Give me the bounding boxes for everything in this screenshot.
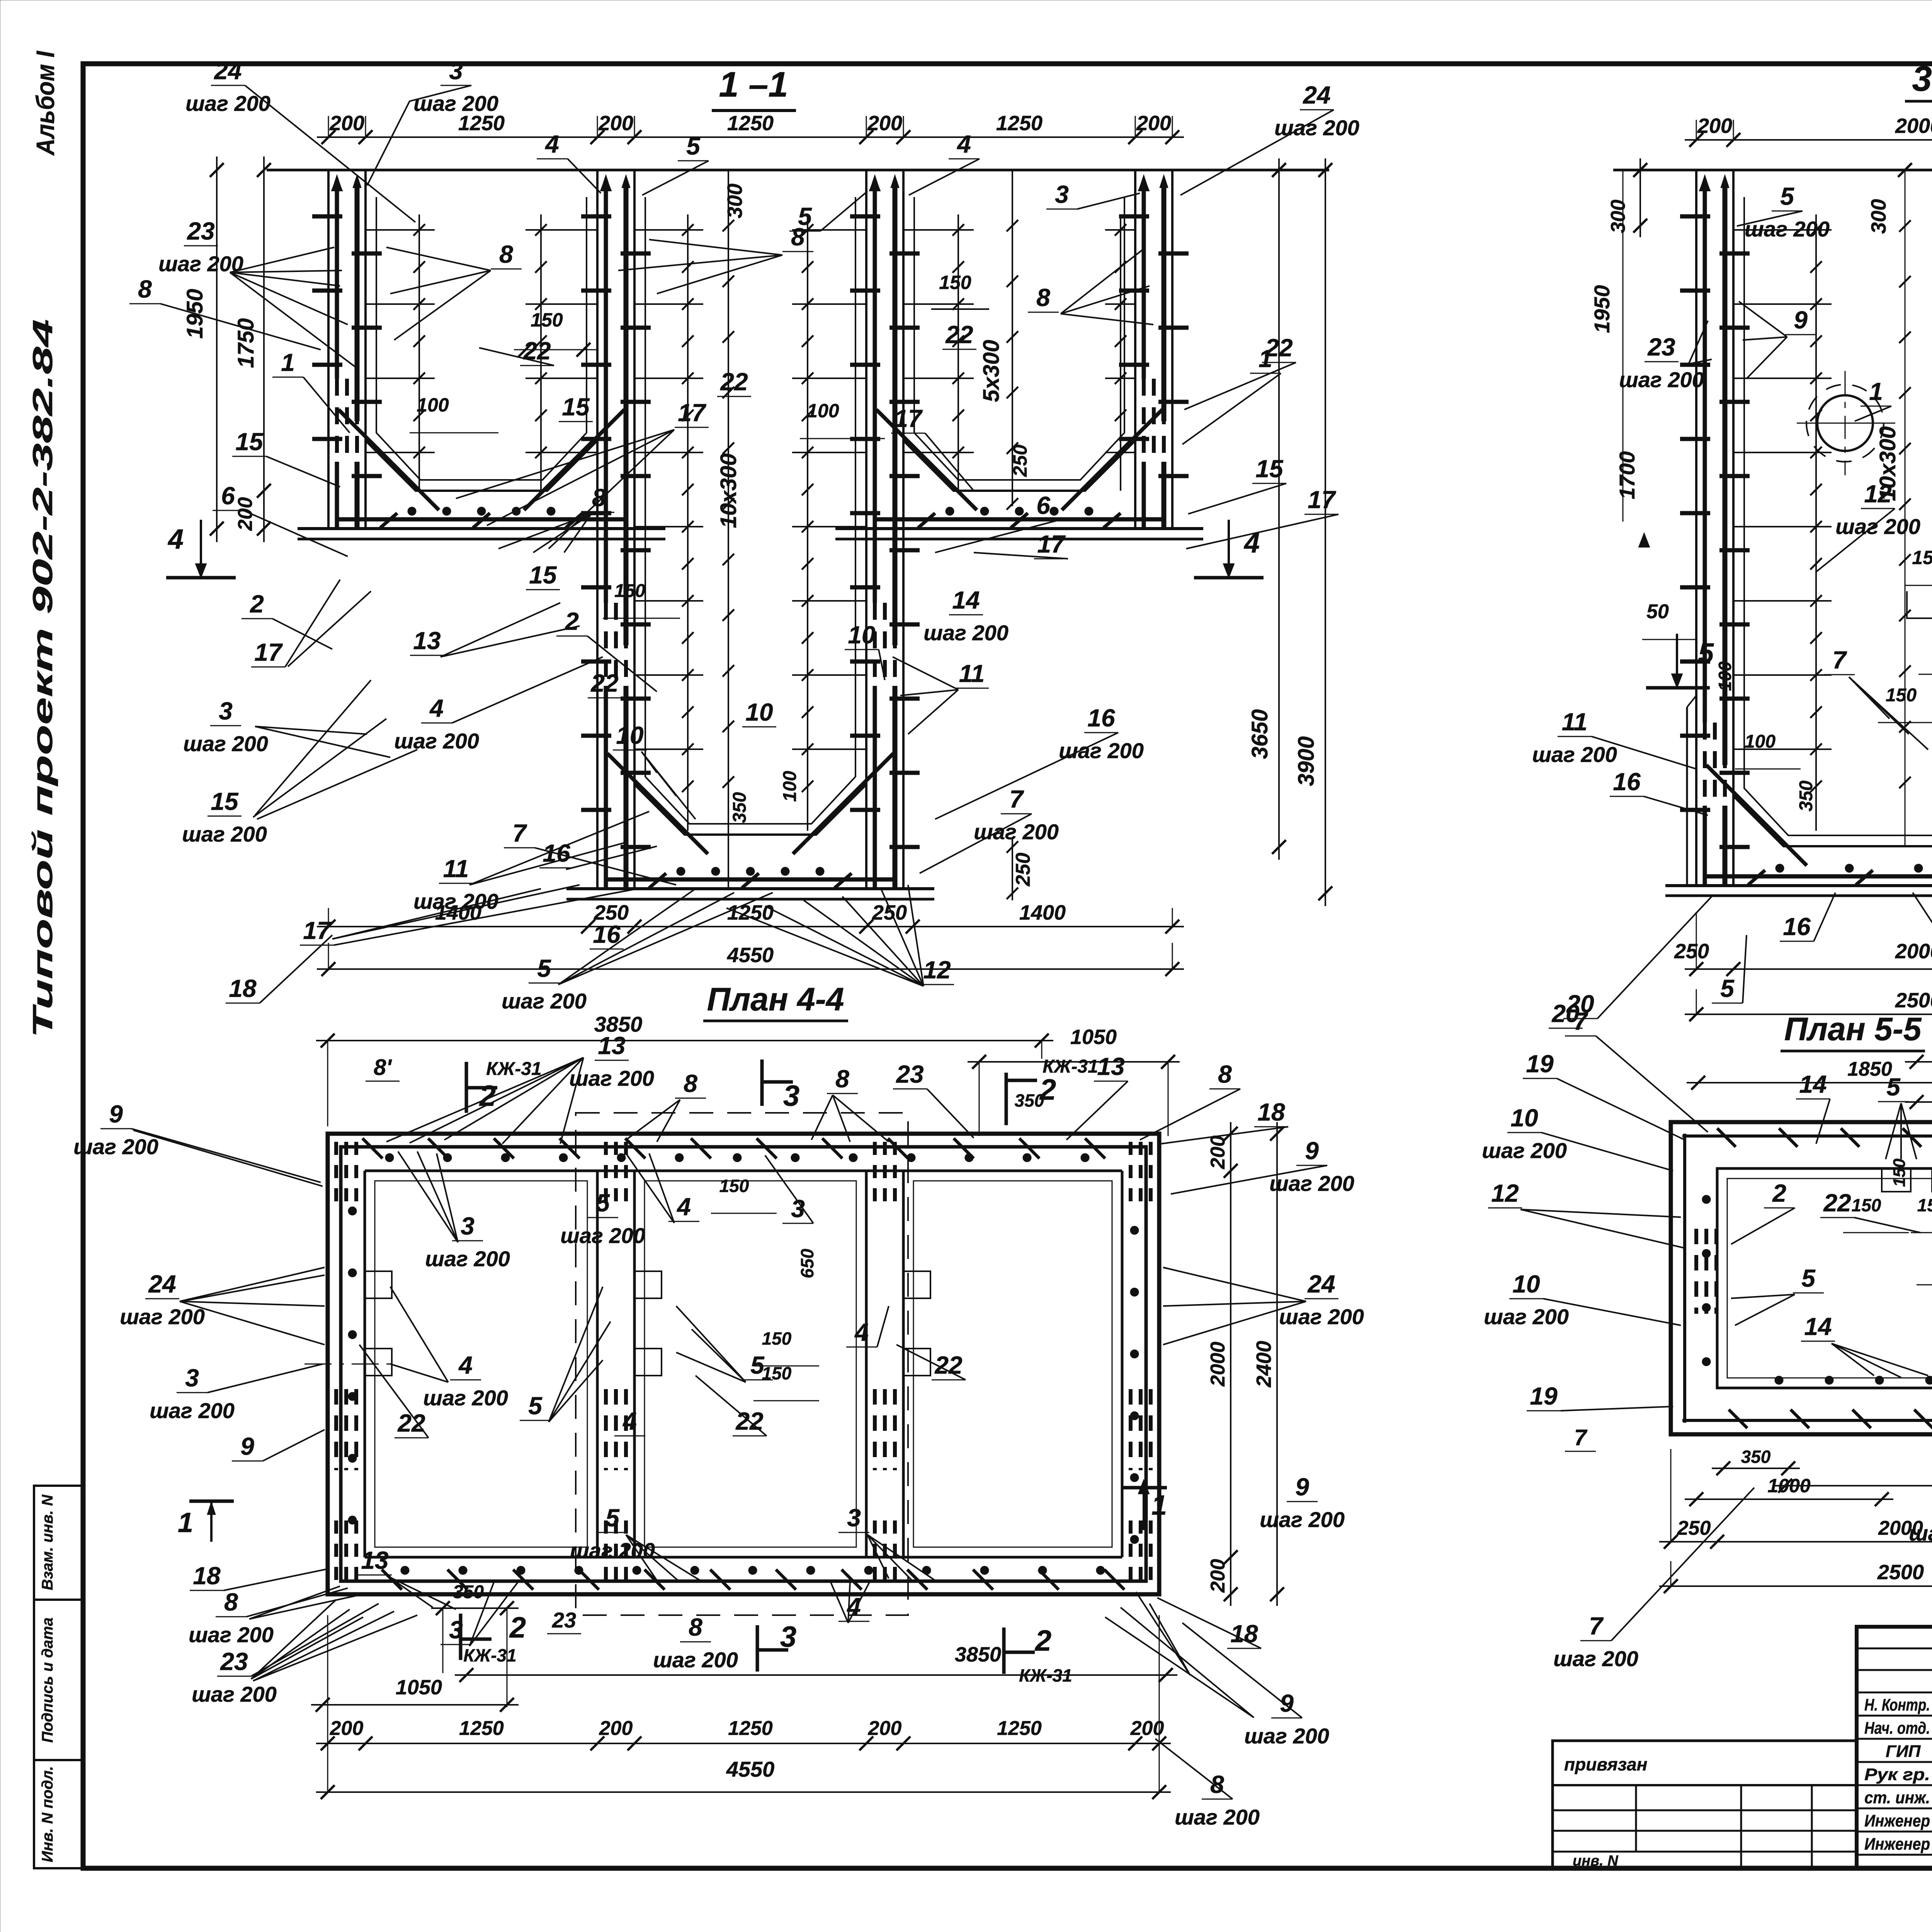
svg-text:200: 200: [1136, 112, 1171, 135]
plan 5-5 bottom dims: [1712, 1468, 1800, 1469]
svg-text:1250: 1250: [728, 1717, 773, 1740]
wall outline: [596, 170, 599, 889]
svg-text:24: 24: [1307, 1270, 1335, 1298]
plan 4-4 inner wall lines: [364, 1171, 366, 1557]
svg-text:2: 2: [509, 1611, 526, 1644]
svg-text:10: 10: [848, 621, 875, 649]
svg-text:15: 15: [529, 561, 557, 589]
svg-text:привязан: привязан: [1564, 1754, 1647, 1774]
section 3-3 inner vertical lines: [1905, 170, 1906, 846]
section 1-1 ladder dim 5x300: [1012, 170, 1013, 506]
plan 4-4 right vertical dims: [1230, 1122, 1231, 1606]
section 3-3 markers: [1676, 634, 1678, 688]
svg-text:2: 2: [565, 607, 579, 635]
svg-text:4: 4: [854, 1318, 869, 1346]
section 1-1 section marker 4 left: [200, 520, 202, 578]
svg-text:1950: 1950: [1590, 285, 1614, 333]
plan 5-5 top dims: [1687, 1082, 1932, 1083]
svg-text:Нач. отд.: Нач. отд.: [1864, 1719, 1930, 1738]
svg-text:КЖ-31: КЖ-31: [1019, 1665, 1072, 1685]
svg-text:350: 350: [1015, 1090, 1044, 1111]
svg-text:шаг 200: шаг 200: [1059, 738, 1144, 763]
svg-text:15: 15: [235, 428, 264, 456]
svg-text:ст. инж.: ст. инж.: [1864, 1788, 1930, 1807]
wall rebar ticks: [312, 214, 342, 219]
svg-text:22: 22: [934, 1351, 962, 1379]
slab bottom diagonal tick dashes: [649, 873, 666, 888]
plan 4-4 small dim 350 bottom: [431, 1607, 519, 1609]
svg-text:11: 11: [443, 855, 469, 883]
svg-text:5: 5: [1698, 638, 1714, 669]
svg-text:10: 10: [616, 721, 643, 749]
svg-text:10x300: 10x300: [716, 453, 741, 528]
svg-text:100: 100: [1745, 731, 1776, 752]
title block left row lines: [1857, 1648, 1932, 1650]
svg-text:3: 3: [783, 1080, 799, 1112]
tank floor with chamfers: [634, 784, 866, 835]
svg-text:16: 16: [1087, 704, 1115, 732]
svg-text:250: 250: [1012, 853, 1034, 887]
plan 4-4 side band rebar lines: [339, 1145, 343, 1583]
slab bottom rebar: [876, 517, 1163, 522]
svg-text:шаг 200: шаг 200: [923, 621, 1009, 645]
svg-text:4: 4: [676, 1193, 691, 1221]
plan 4-4 extra corner fans: [251, 1600, 336, 1679]
slab bottom lines: [1665, 884, 1932, 887]
svg-text:2: 2: [250, 590, 264, 618]
svg-text:5: 5: [537, 954, 551, 982]
svg-text:150: 150: [1917, 1195, 1932, 1215]
svg-text:Альбом I: Альбом I: [31, 50, 60, 156]
inner rebar cage outline: [914, 197, 1124, 480]
svg-text:12: 12: [1864, 480, 1891, 508]
svg-text:1250: 1250: [996, 112, 1043, 135]
svg-text:2: 2: [1034, 1624, 1051, 1657]
svg-text:150: 150: [939, 272, 971, 293]
svg-text:23: 23: [187, 217, 214, 245]
svg-text:шаг 200: шаг 200: [192, 1682, 277, 1706]
svg-text:5: 5: [1801, 1264, 1816, 1292]
svg-text:300: 300: [1867, 199, 1890, 234]
wall vertical rebar: [605, 177, 606, 177]
svg-text:22: 22: [720, 368, 748, 396]
svg-text:150: 150: [531, 309, 563, 331]
svg-text:шаг 200: шаг 200: [653, 1648, 738, 1672]
svg-text:350: 350: [453, 1582, 484, 1602]
plan 4-4 side dots: [348, 1207, 357, 1215]
svg-text:шаг 200: шаг 200: [1835, 514, 1920, 539]
svg-text:8: 8: [684, 1070, 697, 1097]
svg-text:7: 7: [1009, 785, 1024, 813]
svg-text:250: 250: [1674, 940, 1709, 963]
svg-text:200: 200: [867, 112, 902, 135]
svg-text:1050: 1050: [396, 1676, 442, 1699]
wall splice dashed bars: [1142, 379, 1146, 462]
svg-text:14: 14: [1804, 1313, 1832, 1340]
svg-text:1400: 1400: [1019, 901, 1066, 924]
svg-text:16: 16: [1613, 768, 1641, 796]
svg-text:100: 100: [807, 400, 839, 422]
section 1-1 interior ladder mid tank 2: [807, 214, 808, 831]
plan 4-4 bottom dims: [311, 1704, 519, 1706]
svg-text:17: 17: [303, 917, 332, 944]
svg-text:13: 13: [361, 1546, 388, 1574]
svg-text:100: 100: [1715, 661, 1735, 691]
svg-text:5: 5: [596, 1189, 610, 1217]
plan 5-5 diagonal ticks: [1717, 1128, 1736, 1147]
section 1-1 interior ladder left tank left face: [418, 214, 420, 491]
slab bottom lines: [835, 527, 1203, 530]
svg-text:200: 200: [598, 112, 633, 135]
svg-text:2500: 2500: [1877, 1561, 1924, 1584]
svg-text:18: 18: [1257, 1098, 1285, 1126]
wall vertical rebar: [337, 177, 337, 177]
plan 4-4 splice dashes on walls: [334, 1389, 338, 1470]
wall outline: [1134, 170, 1136, 529]
svg-text:шаг 200: шаг 200: [1244, 1724, 1329, 1748]
svg-text:1250: 1250: [997, 1717, 1042, 1740]
plan 5-5 outer rect: [1671, 1122, 1932, 1434]
slab bottom lines: [298, 527, 665, 530]
svg-text:шаг 200: шаг 200: [425, 1247, 510, 1271]
svg-text:10: 10: [1512, 1270, 1540, 1298]
svg-text:12: 12: [1491, 1179, 1519, 1207]
svg-text:15: 15: [211, 787, 239, 815]
svg-text:17: 17: [678, 399, 707, 427]
plan 5-5 inner wall rect: [1717, 1168, 1932, 1388]
svg-text:3: 3: [449, 57, 463, 85]
svg-text:8: 8: [1210, 1770, 1224, 1798]
slab bottom diagonal tick dashes: [918, 513, 935, 528]
svg-text:300: 300: [723, 184, 747, 218]
svg-text:250: 250: [1677, 1517, 1711, 1539]
slab bottom lines: [566, 887, 934, 890]
svg-text:250: 250: [1009, 444, 1031, 477]
svg-text:200: 200: [329, 112, 364, 135]
wall rebar ticks: [581, 214, 611, 219]
slab dots: [677, 867, 685, 876]
svg-text:24: 24: [1303, 81, 1330, 109]
wall vertical rebar: [1704, 177, 1705, 177]
svg-text:ГИП: ГИП: [1886, 1742, 1921, 1761]
svg-text:150: 150: [1912, 547, 1932, 568]
svg-text:15: 15: [562, 393, 590, 421]
svg-text:23: 23: [1647, 333, 1675, 361]
svg-text:22: 22: [1823, 1189, 1851, 1217]
svg-text:8: 8: [689, 1613, 702, 1641]
svg-text:14: 14: [952, 586, 980, 614]
svg-text:200: 200: [1697, 114, 1732, 138]
svg-text:4550: 4550: [727, 944, 774, 967]
section 3-3 hole circle: [1817, 395, 1873, 451]
svg-text:100: 100: [780, 771, 800, 802]
section 1-1 top edge line: [267, 169, 1329, 172]
wall splice dashed bars: [604, 603, 608, 686]
svg-text:8: 8: [791, 223, 805, 251]
plan 5-5 inner thin rect: [1727, 1179, 1932, 1378]
slab dots: [408, 507, 416, 515]
svg-text:13: 13: [598, 1032, 625, 1060]
section 1-1 interior ladder mid tank: [687, 214, 689, 831]
wall vertical rebar: [874, 177, 875, 177]
svg-text:5: 5: [686, 132, 701, 160]
svg-text:Инженер: Инженер: [1864, 1835, 1930, 1854]
section 3-3 wall step jogs: [1687, 696, 1696, 707]
tank floor with chamfers: [1733, 796, 1932, 846]
plan 4-4 outer rect: [328, 1134, 1159, 1594]
svg-text:шаг 200: шаг 200: [1909, 1521, 1932, 1545]
svg-text:100: 100: [417, 394, 449, 416]
inner rebar cage outline: [645, 197, 855, 824]
svg-text:шаг 200: шаг 200: [189, 1622, 274, 1647]
svg-text:4: 4: [622, 1407, 637, 1435]
svg-text:1050: 1050: [1070, 1026, 1117, 1049]
svg-text:3: 3: [219, 697, 233, 725]
title block stamp outer: [1857, 1627, 1932, 1868]
svg-text:23: 23: [552, 1608, 576, 1632]
svg-text:17: 17: [894, 405, 923, 432]
svg-text:150: 150: [1886, 685, 1917, 706]
slab bottom rebar: [607, 878, 894, 882]
svg-text:шаг 200: шаг 200: [560, 1223, 645, 1248]
section 1-1 left vertical dim 1950: [216, 156, 218, 542]
plan 4-4 top band rebar lines: [339, 1145, 1148, 1149]
svg-text:8: 8: [592, 484, 606, 512]
slab bottom rebar: [338, 517, 625, 522]
svg-text:шаг 200: шаг 200: [1619, 367, 1704, 392]
svg-text:16: 16: [1783, 913, 1811, 940]
svg-text:Инв. N подл.: Инв. N подл.: [39, 1766, 56, 1862]
wall outline: [327, 170, 330, 529]
svg-text:150: 150: [762, 1363, 792, 1383]
chamfer diagonal bars: [1706, 765, 1807, 866]
inner rebar cage outline: [376, 197, 587, 480]
svg-text:9: 9: [1794, 306, 1808, 334]
svg-text:13: 13: [413, 627, 440, 655]
slab dots: [946, 507, 954, 515]
svg-text:4: 4: [956, 130, 971, 158]
section 3-3 interior ladder left: [1815, 214, 1817, 831]
svg-text:9: 9: [1295, 1473, 1309, 1501]
section 3-3 top edge line: [1613, 169, 1932, 172]
svg-text:200: 200: [330, 1717, 364, 1740]
svg-text:шаг 200: шаг 200: [394, 729, 479, 753]
svg-text:10: 10: [745, 698, 773, 726]
svg-text:14: 14: [1799, 1070, 1827, 1098]
svg-text:24: 24: [214, 57, 241, 85]
svg-text:3: 3: [1055, 180, 1069, 208]
svg-text:5: 5: [1720, 975, 1735, 1002]
svg-text:15: 15: [1255, 455, 1284, 483]
plan 4-4 chamber inner thin rects: [375, 1181, 587, 1547]
svg-text:шаг 200: шаг 200: [974, 820, 1059, 844]
svg-text:1850: 1850: [1847, 1058, 1892, 1080]
svg-text:6: 6: [221, 482, 235, 510]
svg-text:Подпись и дата: Подпись и дата: [39, 1617, 56, 1743]
wall rebar ticks: [1119, 214, 1149, 219]
plan 4-4 internal walls: [596, 1171, 599, 1557]
svg-text:шаг 200: шаг 200: [1269, 1171, 1354, 1196]
svg-text:КЖ-31: КЖ-31: [1043, 1056, 1098, 1077]
svg-text:5: 5: [1886, 1073, 1901, 1101]
section 3-3 marker 4 left: [1644, 533, 1645, 534]
svg-text:2400: 2400: [1252, 1341, 1276, 1388]
svg-text:8': 8': [374, 1055, 392, 1080]
svg-text:Н. Контр.: Н. Контр.: [1864, 1696, 1930, 1714]
svg-text:200: 200: [1207, 1136, 1229, 1170]
svg-text:шаг 200: шаг 200: [150, 1398, 235, 1423]
plan 4-4 junction splice dashes: [334, 1142, 338, 1207]
svg-text:1: 1: [1869, 378, 1883, 405]
svg-text:шаг 200: шаг 200: [1745, 217, 1830, 241]
svg-text:3650: 3650: [1247, 709, 1272, 759]
svg-text:5x300: 5x300: [979, 340, 1004, 402]
plan 5-5 small rects top: [1882, 1168, 1911, 1192]
chamfer diagonal bars: [607, 753, 708, 854]
svg-text:10: 10: [1510, 1104, 1538, 1132]
svg-text:инв. N: инв. N: [1573, 1853, 1619, 1869]
svg-text:1: 1: [178, 1507, 193, 1538]
section 1-1 extra leader fans: [230, 247, 334, 272]
section 1-1 bottom dimension rows: [317, 926, 1184, 927]
svg-text:24: 24: [148, 1270, 176, 1298]
svg-text:200: 200: [1207, 1559, 1229, 1593]
plan 4-4 section markers: [465, 1062, 468, 1113]
svg-text:4: 4: [458, 1351, 473, 1379]
wall outline: [1695, 170, 1697, 886]
svg-text:18: 18: [229, 975, 257, 1002]
svg-text:150: 150: [762, 1328, 792, 1349]
plan 4-4 small detail rects left wall: [365, 1271, 392, 1298]
svg-text:18: 18: [193, 1562, 221, 1590]
svg-text:2500: 2500: [1895, 989, 1932, 1012]
svg-text:1250: 1250: [459, 1717, 504, 1740]
svg-text:11: 11: [1562, 708, 1587, 736]
svg-text:250: 250: [872, 901, 907, 924]
svg-text:19: 19: [1530, 1382, 1558, 1410]
svg-text:План 4-4: План 4-4: [707, 981, 844, 1017]
svg-text:13: 13: [1097, 1053, 1124, 1080]
svg-text:3-3: 3-3: [1912, 59, 1932, 99]
svg-text:Рук гр.: Рук гр.: [1864, 1765, 1930, 1784]
svg-text:200: 200: [599, 1717, 633, 1740]
svg-text:50: 50: [1646, 600, 1669, 623]
wall splice dashed bars: [335, 379, 339, 462]
plan 4-4 dots rows: [385, 1153, 394, 1162]
svg-text:650: 650: [797, 1248, 817, 1278]
svg-text:4550: 4550: [726, 1757, 775, 1781]
svg-text:300: 300: [1607, 200, 1629, 233]
plan 4-4 small dim 1050 top right: [968, 1061, 1180, 1063]
svg-text:План 5-5: План 5-5: [1784, 1011, 1922, 1047]
svg-text:4: 4: [544, 130, 559, 158]
svg-text:7: 7: [1589, 1612, 1604, 1640]
wall rebar ticks: [850, 214, 880, 219]
slab dots: [1776, 864, 1784, 872]
svg-text:12: 12: [923, 956, 951, 984]
svg-text:22: 22: [523, 337, 551, 365]
slab bottom rebar: [1706, 874, 1932, 879]
wall splice dashed bars: [1703, 723, 1707, 806]
svg-text:150: 150: [614, 581, 645, 601]
plan 4-4 bottom dim 3850: [455, 1674, 1177, 1676]
plan 4-4 marker 2b top right: [1005, 1073, 1008, 1125]
svg-text:шаг 200: шаг 200: [182, 822, 267, 846]
wall vertical rebar: [1143, 177, 1144, 177]
svg-text:1: 1: [1259, 345, 1272, 372]
svg-text:шаг 200: шаг 200: [1484, 1304, 1569, 1329]
plan 5-5 band rebar lines: [1682, 1134, 1932, 1138]
svg-text:8: 8: [1218, 1060, 1232, 1088]
chamfer diagonal bars: [338, 410, 439, 510]
svg-text:8: 8: [1036, 284, 1050, 311]
svg-text:КЖ-31: КЖ-31: [463, 1645, 516, 1665]
section 1-1 left vertical dim 1750 and 200: [263, 156, 265, 542]
svg-text:1250: 1250: [727, 901, 774, 924]
svg-text:5: 5: [1780, 182, 1794, 210]
svg-text:19: 19: [1526, 1050, 1554, 1078]
section 1-1 interior ladder left tank right face: [540, 214, 542, 491]
section 1-1 section marker 4 right: [1228, 520, 1230, 578]
svg-text:350: 350: [730, 792, 750, 823]
inner rebar cage outline: [1744, 197, 1932, 835]
svg-text:2: 2: [1772, 1179, 1786, 1207]
svg-text:шаг 200: шаг 200: [73, 1134, 158, 1159]
plan 5-5 dots: [1702, 1195, 1711, 1204]
svg-text:шаг 200: шаг 200: [1553, 1646, 1638, 1671]
margin stamp boxes bottom left: [34, 1486, 83, 1600]
svg-text:8: 8: [138, 275, 152, 303]
section 1-1 right vertical dims 3650 3900: [1278, 158, 1280, 860]
svg-text:350: 350: [1796, 781, 1816, 811]
plan 4-4 centerline dash-dot: [304, 1364, 396, 1365]
svg-text:17: 17: [254, 638, 283, 666]
svg-text:2000: 2000: [1895, 940, 1932, 963]
svg-text:150: 150: [1852, 1195, 1881, 1215]
slab bottom diagonal tick dashes: [380, 513, 397, 528]
svg-text:шаг 200: шаг 200: [1175, 1805, 1260, 1829]
plan 5-5 splice dashes left wall: [1694, 1229, 1698, 1314]
svg-text:7: 7: [1574, 1425, 1588, 1450]
svg-text:7: 7: [1832, 646, 1847, 674]
svg-text:1 –1: 1 –1: [719, 65, 788, 104]
svg-text:1700: 1700: [1615, 451, 1639, 500]
svg-text:150: 150: [1890, 1158, 1909, 1187]
svg-text:шаг 200: шаг 200: [1482, 1138, 1567, 1163]
svg-text:шаг 200: шаг 200: [1532, 742, 1617, 767]
svg-text:200: 200: [868, 1717, 902, 1740]
svg-text:4: 4: [167, 524, 184, 555]
svg-text:22: 22: [590, 669, 618, 697]
section 1-1 ladder dim 10x300 mid-left: [728, 170, 729, 889]
svg-text:3: 3: [461, 1212, 474, 1240]
plan 4-4 diagonal ticks top: [362, 1138, 383, 1158]
svg-text:9: 9: [1305, 1137, 1319, 1165]
svg-text:шаг 200: шаг 200: [502, 989, 587, 1013]
svg-text:шаг 200: шаг 200: [1260, 1507, 1345, 1532]
wall rebar ticks: [1680, 214, 1710, 219]
svg-text:3: 3: [449, 1616, 463, 1644]
svg-text:350: 350: [1741, 1447, 1771, 1467]
svg-text:5: 5: [605, 1504, 620, 1532]
svg-text:17: 17: [1308, 486, 1337, 514]
svg-text:6: 6: [1036, 492, 1050, 519]
section 1-1 top dimension line: [317, 136, 1184, 138]
tank floor with chamfers: [366, 440, 597, 491]
svg-text:7: 7: [512, 819, 527, 847]
plan 4-4 dashed КЖ-31 rect: [576, 1113, 908, 1615]
section 1-1 interior ladder right tank: [957, 214, 959, 491]
